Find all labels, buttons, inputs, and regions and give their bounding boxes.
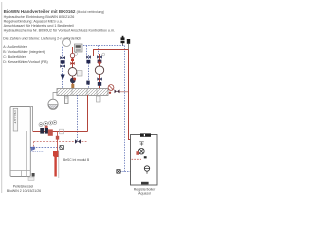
HC1 manifold connector (71, 84, 74, 88)
cable drop 2 (86, 46, 88, 56)
page left margin line (1, 2, 3, 193)
HC1 return line (blue dashed) (62, 55, 64, 89)
red marker stroke (53, 151, 59, 177)
manifold fitting 2 (97, 96, 101, 102)
cable bus horizontal (blue dashed) (83, 45, 124, 47)
svg-text:Hydraulikschema Nr. B090U2 für: Hydraulikschema Nr. B090U2 für Vorlauf A… (4, 29, 116, 33)
charge pump red dot (109, 92, 111, 94)
expansion vessel (48, 99, 58, 109)
pump tail (146, 171, 148, 174)
HC2 return line (blue dashed) (88, 55, 90, 89)
HC2 pump (95, 66, 103, 74)
boiler base section line (10, 170, 30, 172)
manifold drain fitting (65, 96, 69, 104)
dhw charge pump (diagonal) (108, 85, 114, 91)
cable to boiler (blue dashed) (30, 147, 60, 149)
small fitting on pipe (60, 129, 64, 134)
callout 2 (44, 122, 48, 126)
arrowhead into tank coil (138, 147, 141, 150)
svg-text:PELLET: PELLET (13, 111, 17, 124)
dhw flow pipe top (red) (94, 50, 129, 57)
svg-text:Aquasol: Aquasol (138, 191, 151, 195)
HC1 flow valve (70, 62, 74, 65)
HC2 lower valve (97, 77, 101, 80)
safety valve symbol (127, 39, 130, 44)
callout 1 (39, 123, 43, 127)
boiler flow riser (red) (87, 95, 89, 132)
HC2 flow line (red) (99, 54, 101, 89)
return valve (75, 139, 81, 143)
tank bottom label (141, 182, 149, 185)
callout red mark (45, 126, 48, 129)
cable drop to sensor A (62, 47, 64, 55)
expansion vessel pipe (53, 93, 58, 100)
boiler base divider (21, 171, 23, 177)
svg-text:BioWIN 2 10/15/21/26: BioWIN 2 10/15/21/26 (7, 189, 41, 193)
svg-text:BeSC Int modul B: BeSC Int modul B (63, 158, 90, 162)
dhw charge check valve (115, 90, 120, 94)
tank top label bar (140, 133, 151, 136)
HC1 return valve lower (60, 64, 65, 67)
HC1 fitting (71, 59, 74, 61)
dhw tank body (131, 135, 158, 186)
cable corner into tank (125, 171, 145, 173)
drain pipe (red) (57, 132, 59, 153)
HC2 fitting (98, 60, 102, 63)
svg-text:Anschlussart für Heizkreis und: Anschlussart für Heizkreis und 1 Bedient… (4, 24, 74, 28)
connecting pipe to riser (120, 91, 129, 93)
burner fitting (32, 173, 35, 177)
HC1 pump (68, 68, 77, 77)
air vent symbol (121, 37, 125, 43)
HC1 check valve (61, 60, 65, 63)
boiler pump (40, 128, 44, 134)
callout near HC1 (75, 53, 78, 56)
HC1 flow line (red) (72, 47, 74, 89)
tank coil inlet fitting (139, 142, 144, 146)
cable drop to tank sensor (long) (124, 46, 126, 172)
HC2 lower fitting (98, 82, 101, 86)
HC2 flow valve upper (97, 55, 102, 58)
manifold cable down (blue dashed) (77, 95, 79, 142)
sensor at cable corner (117, 170, 120, 174)
tank small fitting (144, 156, 147, 158)
return drop (red dashed) (33, 142, 35, 152)
svg-text:Regelverbindung: Aquasol MES u: Regelverbindung: Aquasol MES u.a. (4, 20, 63, 24)
callout 4 (53, 121, 57, 125)
dhw riser pipe (red) (129, 50, 140, 148)
svg-text:A: Außenfühler: A: Außenfühler (3, 45, 28, 49)
boiler flow pipe (red) (33, 131, 88, 133)
blue annotation dashes (30, 151, 44, 153)
blue annotation blob (31, 147, 36, 151)
callout near HC2 (102, 53, 105, 56)
flue outlet (28, 177, 34, 180)
control module box (75, 44, 83, 52)
gauge line (58, 150, 60, 178)
HC2 return valve (86, 55, 91, 58)
svg-text:BioWIN Handverteiler mit BK016: BioWIN Handverteiler mit BK0162 (Modul v… (4, 9, 105, 14)
tank mixing valve (139, 148, 145, 154)
boiler sensor (60, 146, 63, 150)
boiler control panel (13, 108, 18, 131)
HC2 lower fitting (86, 81, 89, 85)
drain valve red (56, 136, 59, 140)
svg-text:D: Kesselfühler/Vorlauf (FB): D: Kesselfühler/Vorlauf (FB) (3, 60, 48, 64)
svg-text:Hydraulische Einbindung BioWIN: Hydraulische Einbindung BioWIN 8/5/21/26 (4, 15, 75, 19)
HC2 check valve (86, 60, 90, 64)
safety group (red) (48, 129, 53, 135)
HC1 return valve upper (60, 56, 65, 59)
manifold (Handverteiler) (57, 89, 108, 96)
svg-text:C: Boilerfühler: C: Boilerfühler (3, 55, 27, 59)
circulation pipe (red dashed) (132, 158, 142, 160)
HC1 pump head (70, 53, 74, 57)
boiler inner panel line (26, 131, 28, 177)
svg-text:B: Vorlauffühler (integriert): B: Vorlauffühler (integriert) (3, 50, 45, 54)
HC1 flow direction arrow (61, 75, 65, 80)
callout 3 (49, 121, 53, 125)
boiler body (10, 107, 30, 177)
circulation pump (144, 166, 149, 171)
boiler return pipe (red dashed) (34, 141, 88, 143)
outdoor sensor circle A (63, 39, 71, 47)
boiler side panel (30, 107, 32, 132)
cable drop 3 (98, 46, 100, 55)
sensor stub (120, 171, 124, 173)
HC1 aux box (77, 71, 82, 76)
HC1 pump motor (70, 78, 76, 84)
